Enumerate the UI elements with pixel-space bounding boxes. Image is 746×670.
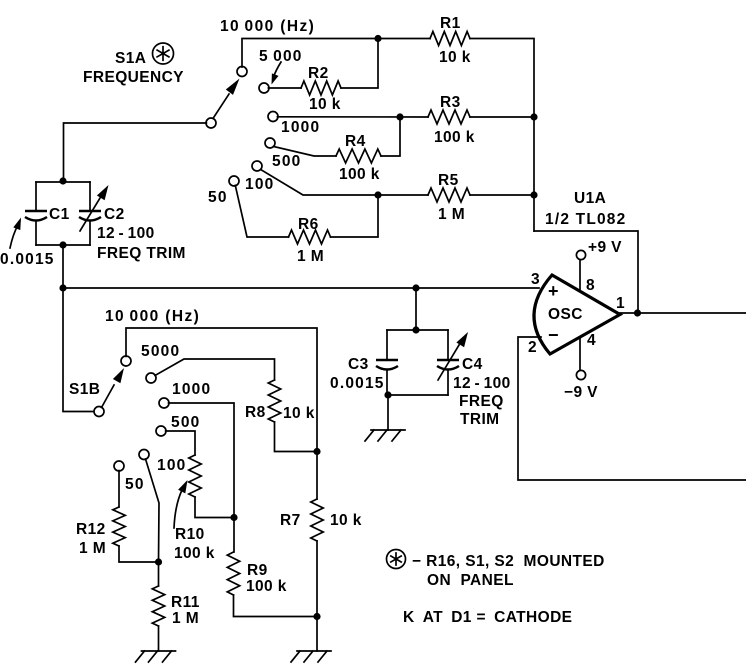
svg-text:FREQUENCY: FREQUENCY — [83, 69, 184, 86]
svg-text:5000: 5000 — [141, 343, 180, 360]
svg-text:0.0015: 0.0015 — [330, 375, 385, 392]
svg-text:1 M: 1 M — [297, 248, 324, 265]
wire R8 to R7 branch — [275, 422, 318, 452]
svg-text:1 M: 1 M — [172, 610, 199, 627]
node rail / C3 junction — [412, 284, 419, 291]
resistor R7 — [311, 499, 323, 541]
resistor R10 — [189, 455, 201, 497]
wire pin 4 to -9V — [579, 338, 581, 371]
wire 500 contact to R4 — [274, 147, 337, 157]
svg-text:8: 8 — [586, 277, 595, 294]
switch S1B contact 10000 — [121, 356, 131, 366]
node junction R3/R4 — [396, 113, 403, 120]
switch S1B contact 5000 — [146, 373, 156, 383]
svg-text:100 k: 100 k — [174, 545, 215, 562]
capacitor C4 variable — [447, 330, 449, 360]
capacitor C3 — [386, 330, 388, 360]
svg-text:4: 4 — [587, 332, 596, 349]
svg-text:100: 100 — [245, 176, 274, 193]
resistor R3 — [428, 110, 470, 124]
switch S1A common contact — [206, 118, 216, 128]
node A top of C1 box — [59, 177, 66, 184]
svg-text:FREQ TRIM: FREQ TRIM — [97, 245, 186, 262]
svg-text:100 k: 100 k — [434, 129, 475, 146]
switch S1B contact 500 — [156, 426, 166, 436]
node top of C3 box — [412, 326, 419, 333]
svg-text:50: 50 — [208, 189, 228, 206]
pointer arrow 5000 to contact — [274, 62, 282, 77]
wire pin 2 feedback — [518, 337, 746, 480]
wire pin 8 to +9V — [579, 260, 581, 292]
svg-text:−: − — [548, 325, 559, 345]
terminal -9V — [576, 370, 585, 379]
wire R12 to junction — [119, 546, 159, 562]
wire R10 to junction — [195, 497, 234, 518]
svg-text:R7: R7 — [280, 512, 301, 529]
svg-text:12 - 100: 12 - 100 — [453, 375, 511, 392]
svg-text:1 M: 1 M — [79, 540, 106, 557]
svg-text:− R16, S1, S2 MOUNTED: − R16, S1, S2 MOUNTED — [412, 553, 605, 570]
resistor R9 — [227, 552, 239, 595]
resistor R1 — [430, 32, 470, 46]
wire 5000 contact to R2 — [268, 87, 301, 89]
svg-text:10 k: 10 k — [439, 49, 471, 66]
node junction R8/R7 — [313, 448, 320, 455]
svg-text:R5: R5 — [438, 172, 459, 189]
wire 1000 contact down — [169, 403, 235, 518]
svg-text:1000: 1000 — [172, 381, 211, 398]
wire R11 to ground — [158, 626, 160, 651]
switch S1A contact 5000 — [259, 83, 269, 93]
pointer arrow 0.0015 to C1 — [10, 225, 18, 248]
svg-text:R4: R4 — [345, 133, 366, 150]
switch S1B contact 1000 — [159, 398, 169, 408]
terminal +9V — [576, 250, 585, 259]
switch S1A contact 10000 — [237, 67, 247, 77]
svg-text:OSC: OSC — [548, 306, 583, 323]
switch S1A contact 500 — [265, 138, 275, 148]
node junction R12/R11 — [155, 558, 162, 565]
wire junction to ground — [316, 617, 318, 652]
svg-text:1: 1 — [616, 295, 625, 312]
svg-text:S1B: S1B — [69, 381, 100, 398]
pointer arrow R10 — [174, 490, 182, 528]
svg-text:10 000 (Hz): 10 000 (Hz) — [105, 308, 200, 325]
node bottom of C3 box — [384, 391, 391, 398]
svg-text:3: 3 — [531, 271, 540, 288]
resistor R4 — [336, 149, 381, 163]
switch S1B wiper arm — [102, 385, 115, 408]
capacitor C1 — [35, 182, 37, 211]
wire 10000 contact to R7 branch — [126, 328, 317, 499]
svg-text:1000: 1000 — [281, 119, 320, 136]
svg-text:50: 50 — [125, 476, 145, 493]
svg-text:U1A: U1A — [574, 190, 606, 207]
node bottom of C1 box — [59, 241, 66, 248]
resistor R8 — [268, 380, 280, 422]
svg-text:ON PANEL: ON PANEL — [427, 572, 514, 589]
svg-text:C4: C4 — [462, 356, 483, 373]
wire R2 up to R1 line — [341, 39, 378, 89]
node junction bottom R9/R7 — [313, 613, 320, 620]
wire R1 to feedback bus — [470, 39, 534, 232]
svg-text:C1: C1 — [49, 206, 70, 223]
svg-text:C3: C3 — [348, 356, 369, 373]
ground below R11 — [136, 651, 176, 662]
svg-text:0.0015: 0.0015 — [0, 251, 55, 268]
svg-text:10 k: 10 k — [330, 512, 362, 529]
switch S1B common contact — [94, 407, 104, 417]
wire rail down to S1B common — [63, 288, 95, 412]
svg-text:K AT D1 = CATHODE: K AT D1 = CATHODE — [403, 609, 572, 626]
switch S1B contact 50 — [114, 461, 124, 471]
svg-text:R8: R8 — [245, 404, 266, 421]
svg-text:R12: R12 — [76, 521, 106, 538]
switch S1A contact 50 — [229, 176, 239, 186]
wire C3 box top — [387, 329, 448, 331]
wire C3 to ground — [387, 395, 389, 430]
wire 1000 contact to R3 — [277, 116, 428, 118]
ground below R7 — [291, 651, 331, 662]
wire junction to R11 — [158, 562, 160, 586]
svg-text:1/2 TL082: 1/2 TL082 — [545, 211, 626, 228]
panel-mount symbol asterisk at S1A — [153, 43, 174, 64]
svg-text:R2: R2 — [308, 65, 329, 82]
svg-text:R10: R10 — [175, 526, 205, 543]
wire 10000 contact to R1 line — [242, 39, 430, 68]
svg-text:+9 V: +9 V — [588, 239, 622, 256]
node junction R5/R6 — [374, 191, 381, 198]
svg-text:1 M: 1 M — [438, 206, 465, 223]
switch S1A contact 1000 — [268, 112, 278, 122]
svg-text:10 k: 10 k — [309, 96, 341, 113]
svg-text:100 k: 100 k — [246, 578, 287, 595]
node junction R3 right — [530, 113, 537, 120]
resistor R5 — [428, 188, 470, 202]
wire 50 contact down to R6 — [235, 185, 288, 237]
wire 500 contact to R10 — [166, 431, 195, 455]
wire R9 to bottom junction — [234, 595, 318, 617]
panel-mount symbol asterisk legend — [387, 550, 406, 569]
svg-text:TRIM: TRIM — [460, 411, 499, 428]
wire main rail to pin 3 — [63, 287, 539, 289]
wire C1 box to rail — [62, 245, 64, 288]
resistor R12 — [113, 507, 125, 546]
wire 5000 contact to R8 — [155, 359, 275, 380]
svg-text:2: 2 — [528, 339, 537, 356]
wire C3 box bottom — [387, 394, 448, 396]
wire R6 up to R5 line — [331, 195, 379, 237]
svg-text:FREQ: FREQ — [459, 393, 504, 410]
wire junction to R9 — [233, 518, 235, 553]
capacitor C2 variable — [89, 182, 91, 211]
svg-text:10 000 (Hz): 10 000 (Hz) — [220, 18, 315, 35]
node output junction — [634, 309, 641, 316]
wire R4 up to R3 line — [381, 117, 400, 156]
svg-text:R3: R3 — [440, 94, 461, 111]
wire R7 to bottom junction — [316, 541, 318, 617]
svg-text:R1: R1 — [440, 15, 461, 32]
svg-text:100: 100 — [157, 457, 186, 474]
wire rail down to C3 box — [415, 288, 417, 330]
node rail left junction — [59, 284, 66, 291]
wire R5 to feedback bus — [470, 194, 534, 196]
wire C1 box top — [36, 181, 90, 183]
resistor R2 — [301, 81, 341, 95]
svg-text:12 - 100: 12 - 100 — [97, 225, 155, 242]
node junction R5 right — [530, 191, 537, 198]
resistor R11 — [152, 586, 164, 626]
svg-text:S1A: S1A — [115, 50, 146, 67]
node junction R1/R2 — [374, 35, 381, 42]
op-amp U1A — [534, 275, 620, 354]
svg-text:C2: C2 — [104, 206, 125, 223]
svg-text:10 k: 10 k — [283, 405, 315, 422]
svg-text:500: 500 — [171, 414, 200, 431]
node junction R10/R9 — [230, 514, 237, 521]
wire feedback bus to output — [534, 231, 638, 313]
switch S1A contact 100 — [252, 161, 262, 171]
svg-text:R11: R11 — [171, 594, 200, 611]
wire 50 contact to R12 — [118, 471, 120, 507]
svg-text:100 k: 100 k — [339, 166, 380, 183]
wire 100 contact down — [146, 459, 160, 562]
wire S1A common to node A — [64, 123, 207, 181]
svg-text:−9 V: −9 V — [564, 384, 598, 401]
wire op-amp output — [620, 312, 746, 314]
svg-text:R9: R9 — [247, 562, 268, 579]
resistor R6 — [289, 230, 331, 244]
ground below C3 — [365, 430, 405, 441]
wire C1 box bottom — [36, 244, 90, 246]
svg-text:+: + — [548, 281, 559, 301]
wire R3 to feedback bus — [470, 116, 534, 118]
switch S1B contact 100 — [139, 450, 149, 460]
wire 100 contact to R5 line — [261, 170, 428, 195]
svg-text:500: 500 — [272, 153, 301, 170]
svg-text:R6: R6 — [298, 216, 319, 233]
switch S1A wiper arm — [213, 94, 229, 119]
